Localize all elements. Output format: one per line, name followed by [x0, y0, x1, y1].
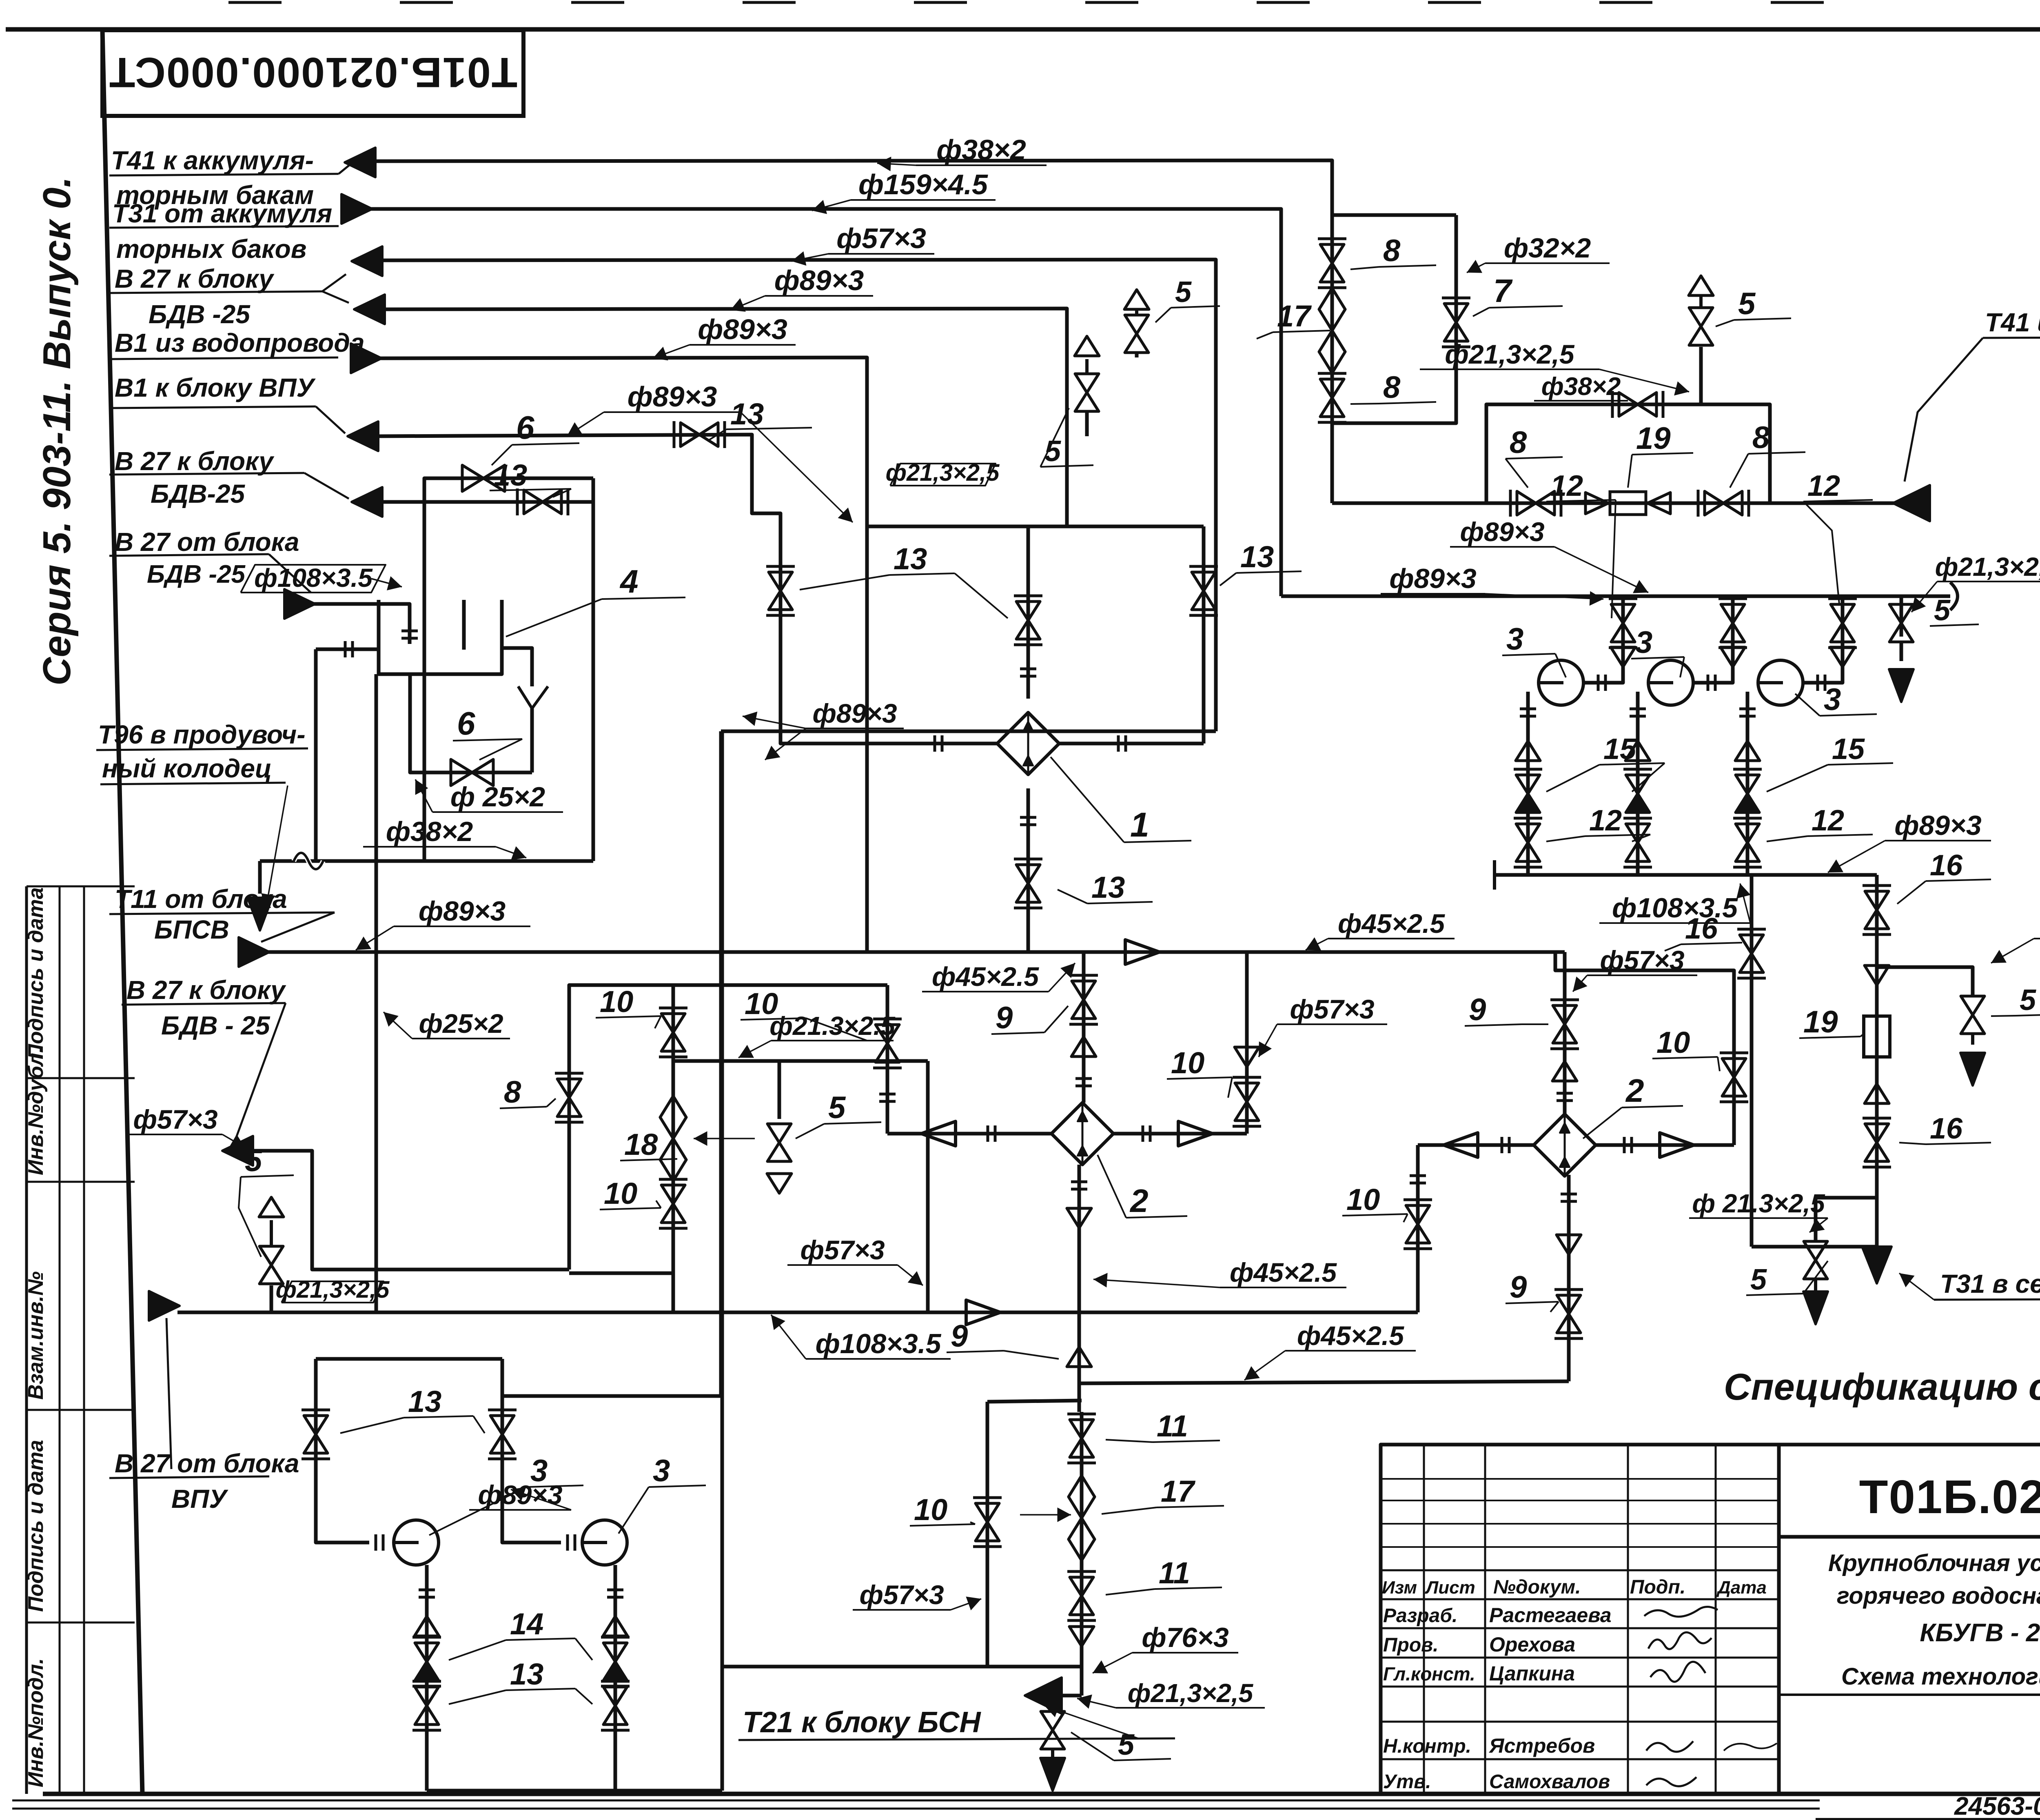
label phi57x3 line C: [828, 253, 934, 255]
pump 2: [1648, 660, 1693, 705]
HX2-2 bottom riser: [1567, 1175, 1571, 1381]
valve 12 pump 2 suction: [1721, 604, 1745, 623]
svg-text:19: 19: [1636, 421, 1671, 456]
label phi89x3 suction: [469, 1509, 571, 1511]
svg-text:Дата: Дата: [1716, 1578, 1767, 1598]
drawing frame top border: [6, 27, 2040, 32]
drawing frame left border: [102, 30, 142, 1794]
svg-text:Схема технологическая: Схема технологическая: [1841, 1663, 2040, 1690]
svg-text:ф89×3: ф89×3: [628, 381, 717, 413]
discharge header bottom: [427, 1789, 722, 1793]
phi32 loop left column valves: [1330, 215, 1334, 503]
svg-text:Серия 5. 903-11. Выпуск 0.: Серия 5. 903-11. Выпуск 0.: [35, 177, 79, 686]
label phi89x3 line D: [765, 295, 873, 297]
svg-text:ф89×3: ф89×3: [812, 698, 897, 728]
svg-text:5: 5: [1934, 594, 1951, 627]
svg-text:ф89×3: ф89×3: [774, 264, 864, 296]
svg-text:10: 10: [1656, 1025, 1690, 1059]
arrow into 17: [1020, 1514, 1071, 1516]
right vent drain arrow: [1971, 1034, 1974, 1045]
svg-text:Разраб.: Разраб.: [1383, 1605, 1457, 1627]
leader: [316, 406, 345, 433]
tank overflow to funnel: [502, 600, 532, 686]
leader T41: [1905, 338, 1983, 482]
tank drain vertical x922: [375, 674, 378, 1312]
svg-text:В 27 к блоку: В 27 к блоку: [115, 446, 275, 476]
svg-text:В 27 от блока: В 27 от блока: [115, 527, 299, 557]
svg-text:8: 8: [1510, 425, 1527, 460]
flange pump 3 discharge: [1739, 708, 1756, 710]
svg-text:№докум.: №докум.: [1493, 1576, 1581, 1598]
label phi21.3x2.5 right top: [1937, 581, 2040, 582]
suction line from 1770: [502, 1394, 722, 1398]
vertical 1454 from pipe G down: [592, 478, 595, 861]
pump 4: [394, 1520, 439, 1565]
open triangle discharge 3: [1735, 741, 1760, 761]
open triangle up: [1865, 1084, 1889, 1103]
svg-text:6: 6: [457, 705, 475, 741]
open tri down below valve5: [767, 1174, 792, 1193]
suction cross bar: [316, 1357, 502, 1361]
phi21.3 branch to valve 5 mid: [673, 1059, 928, 1063]
valve 16 lower right: [1865, 1124, 1889, 1143]
leader a: [743, 716, 806, 728]
svg-text:ф25×2: ф25×2: [419, 1008, 503, 1039]
pump 3: [1758, 660, 1803, 705]
svg-text:13: 13: [730, 397, 764, 431]
device 19 rect: [1864, 1016, 1890, 1057]
svg-text:Инв.№дубл.: Инв.№дубл.: [24, 1047, 48, 1175]
valve 13 on right riser: [1192, 572, 1215, 591]
label phi21.3x2.5 flag bottom-left: [282, 1281, 384, 1303]
long riser 1770 down to discharge header: [721, 731, 724, 1791]
flange feed: [879, 1093, 896, 1096]
pump 2 discharge: [1636, 692, 1640, 875]
title block staff column lines: [1423, 1445, 1425, 1794]
svg-text:13: 13: [510, 1657, 543, 1691]
heat exchanger 2 (right): [1534, 1114, 1596, 1176]
valve 5 right vent: [1961, 996, 1985, 1015]
svg-text:Лист: Лист: [1425, 1578, 1475, 1598]
flange right arm: [1142, 1125, 1144, 1142]
flange HX2-1 bottom: [1071, 1181, 1087, 1183]
svg-text:ф76×3: ф76×3: [1142, 1622, 1229, 1653]
svg-text:5: 5: [1750, 1263, 1767, 1296]
HX1 left arm flange: [934, 735, 936, 752]
drain arrow: [1900, 642, 1903, 661]
pump 5: [582, 1520, 627, 1565]
vertical 2274 to bus: [926, 1061, 930, 1312]
valve 13 on pipe G: [524, 490, 543, 514]
HX2-2 right riser w valve 10: [1555, 952, 1734, 1145]
heat exchanger 1: [997, 712, 1059, 775]
HX1 top bus: [867, 525, 1204, 528]
arrow T11 in: [239, 937, 269, 967]
valve 12 pump 3 suction: [1831, 604, 1854, 623]
svg-text:5: 5: [1118, 1729, 1135, 1761]
component 17 diamonds: [1319, 288, 1345, 331]
vent riser w valve 5 at 665: [270, 1285, 273, 1312]
pump5 discharge column: [614, 1565, 617, 1791]
check 14 pump5: [603, 1643, 627, 1662]
pump 1: [1539, 660, 1583, 705]
pump 2 suction riser: [1693, 596, 1733, 683]
vent triangle: [259, 1197, 284, 1217]
leader: [1599, 369, 1689, 392]
svg-text:Спецификацию см. лист 2: Спецификацию см. лист 2: [1724, 1366, 2040, 1408]
suction drop right w valve 13: [502, 1359, 561, 1543]
T11 bus line: [267, 950, 1565, 954]
label phi32x2: [1485, 262, 1610, 264]
HX1 left arm pipe: [867, 742, 997, 746]
flange HX2-2 top: [1557, 1092, 1573, 1095]
leader b: [765, 728, 806, 760]
svg-text:ф21,3×2,5: ф21,3×2,5: [1128, 1678, 1254, 1708]
svg-text:5: 5: [2020, 984, 2036, 1017]
leader: [304, 473, 349, 499]
flange pump 1 discharge: [1520, 708, 1536, 710]
leader T11: [261, 912, 335, 942]
leader: [951, 1599, 981, 1610]
leader: [384, 1012, 412, 1039]
leader T21: [1044, 1706, 1138, 1738]
svg-text:12: 12: [1807, 470, 1840, 502]
svg-text:ный колодец: ный колодец: [102, 754, 272, 783]
svg-text:17: 17: [1277, 299, 1312, 333]
label phi21.3x2.5: [1689, 1217, 1828, 1219]
right vent branch: [1877, 967, 1973, 996]
label phi45x2.5 for top: [922, 991, 1049, 992]
valve 10 right riser: [1235, 1083, 1259, 1102]
bottom outer lines: [12, 1800, 1820, 1802]
valve 7: [1444, 304, 1468, 322]
svg-text:Орехова: Орехова: [1489, 1633, 1575, 1656]
flange left arm 2: [1501, 1137, 1503, 1153]
leader: [1467, 263, 1485, 273]
valve 13 left suction: [304, 1416, 328, 1434]
pipe E phi89x3: [379, 357, 867, 952]
svg-text:Взам.инв.№: Взам.инв.№: [24, 1271, 48, 1400]
check tri HX2-2 top: [1552, 1061, 1577, 1081]
cone right arm 2: [1660, 1133, 1694, 1157]
pump 1 suction riser: [1583, 596, 1623, 683]
svg-text:КБУГВ - 25: КБУГВ - 25: [1920, 1619, 2040, 1647]
svg-text:5: 5: [1738, 286, 1756, 321]
svg-text:8: 8: [1752, 420, 1770, 455]
valve 13 HX1 bottom: [1016, 865, 1040, 883]
label phi89x3 line E: [690, 344, 796, 346]
label phi38x2 upper right: [1534, 400, 1628, 402]
svg-text:ф21,3×2,5: ф21,3×2,5: [1445, 339, 1574, 369]
arrow T21 out: [1025, 1678, 1062, 1713]
svg-text:3: 3: [1506, 622, 1523, 657]
check tri t21: [1069, 1627, 1094, 1646]
drawing frame bottom border: [43, 1792, 2040, 1796]
leader: [898, 1265, 923, 1285]
flange corner riser: [1410, 1174, 1426, 1177]
flange pump4 inlet: [375, 1534, 377, 1551]
arrow V27-a: [352, 246, 382, 276]
svg-text:Самохвалов: Самохвалов: [1489, 1771, 1610, 1793]
leader up to arrow: [166, 1318, 171, 1469]
valve 12 pump 1 suction: [1611, 604, 1635, 623]
svg-text:Н.контр.: Н.контр.: [1383, 1736, 1471, 1757]
funnel drop to phi25 bypass: [410, 674, 532, 772]
check valve 15 pump 3: [1736, 775, 1759, 794]
svg-text:6: 6: [516, 409, 534, 446]
label phi76x3: [1132, 1652, 1238, 1654]
label phi57x3 center: [1277, 1023, 1387, 1025]
valve 13 on riser 1913: [769, 572, 792, 591]
svg-text:ф21,3×2,5: ф21,3×2,5: [276, 1276, 390, 1303]
svg-text:11: 11: [1157, 1409, 1188, 1443]
svg-text:ф45×2.5: ф45×2.5: [932, 961, 1039, 992]
check cone down: [1865, 965, 1889, 985]
label phi45x2.5 right: [1328, 938, 1455, 939]
svg-text:ф89×3: ф89×3: [1894, 810, 1982, 841]
check valve 15 pump 1: [1516, 775, 1540, 794]
flange pump 2 discharge: [1630, 708, 1646, 710]
leader T31: [1899, 1273, 1934, 1300]
flange right arm 2: [1623, 1137, 1626, 1153]
HX1 right riser: [1202, 526, 1206, 744]
flange pump 3 inlet: [1816, 675, 1819, 691]
flange pump5 inlet: [566, 1534, 569, 1551]
svg-text:2: 2: [1625, 1072, 1644, 1109]
pump4 discharge column: [425, 1565, 429, 1791]
loop drop to main bus: [672, 1273, 675, 1312]
check cone pump 3 suction: [1830, 647, 1855, 667]
valve 13 on pipe F: [681, 423, 699, 446]
flange d4: [419, 1589, 435, 1591]
leader: [1244, 1351, 1285, 1380]
pump suction header phi89x3: [1281, 595, 1950, 598]
arrow V27-b: [354, 295, 385, 324]
label phi21,3x2,5 flag for vents: [890, 464, 996, 486]
svg-text:Подп.: Подп.: [1630, 1576, 1685, 1598]
HX2-1 left arm: [887, 1132, 1051, 1136]
svg-text:10: 10: [745, 987, 778, 1021]
column 19 right: [1875, 875, 1879, 1238]
leader phi38 mid: [496, 847, 526, 858]
svg-text:ф57×3: ф57×3: [133, 1104, 217, 1134]
flange d5: [607, 1589, 623, 1591]
label phi 25x2: [432, 811, 563, 813]
title block staff rows: [1381, 1627, 1779, 1629]
leader: [771, 1315, 806, 1359]
svg-text:В1 к блоку ВПУ: В1 к блоку ВПУ: [115, 373, 316, 402]
arrow V27 mid: [352, 487, 382, 517]
check tri down: [1235, 1047, 1259, 1067]
svg-text:ф89×3: ф89×3: [419, 896, 506, 927]
flange HX2-2 bottom: [1561, 1193, 1577, 1196]
svg-text:17: 17: [1161, 1474, 1196, 1508]
flange on tank left connection: [344, 641, 347, 657]
svg-text:4: 4: [619, 563, 639, 599]
valve 12 pump 2 discharge: [1626, 824, 1650, 843]
title block revision rows: [1381, 1478, 1779, 1480]
svg-text:ф57×3: ф57×3: [1600, 945, 1684, 975]
arrow into 18: [694, 1138, 755, 1139]
line under schema name: [1779, 1693, 2040, 1696]
svg-text:3: 3: [1824, 682, 1841, 717]
svg-text:Подпись и дата: Подпись и дата: [24, 1440, 48, 1612]
svg-text:ф32×2: ф32×2: [1504, 233, 1591, 264]
arrow T41 from network: [1893, 485, 1930, 521]
label phi89x3 lines F fork: [604, 411, 741, 413]
valve 8 loop left riser: [569, 985, 673, 1270]
phi21.3 branch left w valve 5: [1816, 1198, 1877, 1241]
leader fork1: [567, 412, 604, 436]
svg-text:5: 5: [828, 1090, 846, 1125]
valve 13 on HX1 top riser: [1016, 601, 1040, 620]
svg-text:ф89×3: ф89×3: [698, 313, 787, 345]
svg-text:16: 16: [1930, 849, 1963, 882]
svg-text:ф21,3×2,5: ф21,3×2,5: [1935, 552, 2040, 582]
tank internal tube 2: [462, 600, 466, 650]
valve 10 on feed: [876, 1025, 899, 1043]
svg-text:БПСВ: БПСВ: [154, 915, 229, 944]
valve 11 upper: [1070, 1420, 1093, 1438]
check valve 15 pump 2: [1626, 775, 1650, 794]
svg-text:ф38×2: ф38×2: [1541, 373, 1621, 401]
svg-text:ВПУ: ВПУ: [171, 1484, 228, 1514]
svg-text:16: 16: [1930, 1112, 1963, 1145]
T21 drain arrow: [1051, 1749, 1054, 1757]
svg-text:ф 25×2: ф 25×2: [450, 781, 545, 812]
label phi57x3 mid: [787, 1264, 898, 1266]
leader: [1093, 1653, 1132, 1673]
cone right arm: [1178, 1121, 1213, 1146]
fork leader to two arrows: [322, 274, 346, 291]
leader: [1093, 1279, 1220, 1287]
leader: [1828, 841, 1885, 872]
svg-text:10: 10: [604, 1176, 637, 1210]
phi32 right branch w valve 7: [1332, 215, 1456, 423]
HX2-2 top riser: [1563, 952, 1567, 1115]
svg-text:ф38×2: ф38×2: [386, 816, 473, 847]
flow cone on T11 bus: [1125, 940, 1160, 964]
funnel Y: [518, 686, 548, 708]
svg-text:БДВ -25: БДВ -25: [149, 300, 251, 329]
valve 10 lower: [661, 1185, 685, 1204]
check 14 pump4: [415, 1643, 439, 1662]
svg-text:19: 19: [1803, 1005, 1838, 1039]
svg-text:10: 10: [1171, 1046, 1204, 1080]
svg-text:1: 1: [1130, 806, 1149, 844]
link line y4084: [722, 1665, 1082, 1669]
title block outer box: [1381, 1445, 2040, 1794]
arrow V27 bottom: [222, 1136, 253, 1165]
label phi57x3 bottom left: [129, 1134, 222, 1135]
label phi38x2 line A: [916, 164, 1047, 166]
valve 9 HX2-2 top: [1553, 1005, 1577, 1024]
valve 16 left branch: [1740, 935, 1763, 954]
feed riser with valve 10: [886, 985, 889, 1134]
valve 13 d5: [603, 1687, 627, 1706]
svg-text:5: 5: [245, 1143, 263, 1178]
T41 lower line: [1332, 502, 1918, 505]
leader phi89 T11: [356, 926, 394, 950]
HX2-1 top riser: [1082, 952, 1086, 1103]
svg-text:ф108×3.5: ф108×3.5: [254, 563, 373, 593]
leader to T41 arrow: [339, 163, 352, 174]
pipe C phi57x3: [376, 260, 1216, 731]
leader fork2: [741, 412, 853, 522]
pipe T31 line B - phi159 riser: [370, 209, 1281, 596]
label phi21.3x2.5 upper right: [1420, 368, 1599, 370]
svg-text:ф45×2.5: ф45×2.5: [1230, 1257, 1337, 1287]
valve 5 T31 branch: [1804, 1241, 1827, 1260]
check tri HX2-1 top: [1071, 1037, 1096, 1056]
label phi108x3.5 flag: [241, 565, 386, 593]
check cone pump 1 suction: [1611, 647, 1635, 667]
leader: [1991, 939, 2034, 963]
discharge manifold phi108: [1495, 873, 1877, 877]
svg-text:горячего водоснабжения: горячего водоснабжения: [1837, 1583, 2040, 1609]
svg-text:12: 12: [1589, 804, 1622, 837]
label phi45x2.5 bottom collector: [1285, 1350, 1416, 1352]
svg-text:3: 3: [1635, 625, 1652, 660]
arrow T31: [341, 194, 372, 224]
svg-text:Т96 в продувоч-: Т96 в продувоч-: [98, 720, 306, 749]
leader: [1573, 975, 1587, 992]
pump 3 discharge: [1746, 692, 1750, 875]
svg-text:Пров.: Пров.: [1383, 1634, 1439, 1656]
tri up d5: [603, 1616, 628, 1636]
loop right column w valves 10/18/10: [569, 985, 673, 1273]
label phi108x3.5 manifold: [1599, 922, 1750, 924]
svg-text:ф57×3: ф57×3: [859, 1580, 944, 1610]
drain branch from header w valve 5: [1900, 596, 1903, 637]
arrow V27 VPU in: [149, 1291, 180, 1321]
flange pump 2 inlet: [1707, 675, 1710, 691]
phi32 loop top link: [1332, 213, 1456, 217]
label phi89x3 manifold: [1885, 840, 1991, 841]
check cone pump 2 suction: [1721, 647, 1745, 667]
svg-text:13: 13: [408, 1385, 441, 1418]
label phi45x2.5 mid low: [1220, 1287, 1346, 1288]
leader: [1809, 1218, 1828, 1232]
pump 3 suction riser: [1803, 596, 1843, 683]
vent valve5 assemblies on pipes E F: [1085, 412, 1089, 436]
leader: [1740, 883, 1750, 923]
svg-text:8: 8: [504, 1075, 521, 1110]
open triangle discharge 1: [1516, 741, 1540, 761]
svg-text:БДВ - 25: БДВ - 25: [161, 1011, 271, 1040]
svg-text:11: 11: [1159, 1556, 1190, 1590]
svg-text:В 27 от блока: В 27 от блока: [115, 1449, 299, 1478]
label phi38x2 mid: [363, 846, 496, 848]
valve 12 pump 1 discharge: [1516, 824, 1540, 843]
valve 10 on riser 2420: [976, 1503, 999, 1522]
label phi57x3 right2: [1587, 974, 1697, 976]
svg-text:8: 8: [1383, 233, 1401, 268]
svg-text:Гл.конст.: Гл.конст.: [1383, 1663, 1475, 1685]
svg-text:БДВ-25: БДВ-25: [151, 479, 245, 508]
svg-text:Утв.: Утв.: [1383, 1771, 1431, 1793]
svg-text:ф89×3: ф89×3: [1460, 517, 1544, 547]
leader phi25: [415, 779, 432, 812]
svg-text:Т11 от блока: Т11 от блока: [115, 884, 287, 914]
leader: [1485, 594, 1603, 599]
svg-text:9: 9: [1469, 992, 1486, 1027]
title block header row lines: [1381, 1569, 1779, 1571]
phi21.3 drain branch T21: [1051, 1696, 1055, 1712]
svg-text:9: 9: [1510, 1270, 1527, 1305]
main bus phi108x3.5: [177, 1311, 1418, 1314]
leader T96: [266, 786, 288, 908]
